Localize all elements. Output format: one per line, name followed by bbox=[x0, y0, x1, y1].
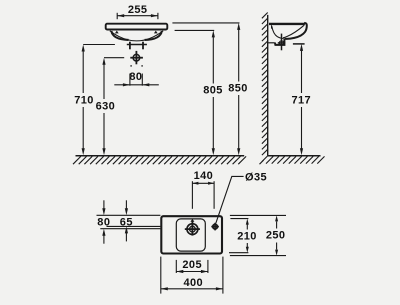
svg-text:Ø35: Ø35 bbox=[245, 172, 267, 184]
front view: 805 extension line from rim bottom bbox=[175, 29, 215, 31]
side view: floor line bbox=[268, 155, 321, 157]
plan view: Ø35 leader line bbox=[216, 176, 244, 223]
front view: 80 dimension (drain width) bbox=[114, 71, 159, 86]
side view: basin profile drain pouch thin ledge bbox=[268, 42, 275, 44]
front view: floor hatching bbox=[73, 156, 246, 164]
front view: drain outlet horizontal line bbox=[127, 44, 147, 46]
side view: basin profile inner bowl curve bbox=[272, 26, 284, 38]
front view: 255 dimension line with end ticks bbox=[117, 13, 158, 19]
front view: water supply crosshair symbol bbox=[130, 51, 143, 67]
plan view: 210 dimension vertical line with arrows bbox=[236, 219, 257, 253]
plan view: bowl inner rounded rectangle bbox=[176, 219, 205, 251]
plan view: 80 level line (drain centre) bbox=[100, 228, 160, 230]
plan view: right extension line top (250) bbox=[230, 214, 286, 216]
front view: drain outlet right bar bbox=[142, 42, 144, 50]
svg-text:630: 630 bbox=[96, 101, 116, 113]
plan view: right extension line bowl top (210) bbox=[230, 218, 248, 220]
front view: 630 dimension vertical line with arrows bbox=[95, 58, 116, 156]
plan view: basin outer rectangle bbox=[161, 216, 222, 253]
side view: 717 extension line bbox=[293, 43, 305, 45]
plan view: tap hole symbol bbox=[211, 223, 219, 231]
front view: 630 extension line (supply height) bbox=[104, 57, 124, 59]
front view: overflow tick right bbox=[154, 31, 158, 34]
front view: bowl inner thick curve left bbox=[111, 31, 128, 40]
front view: basin rim rectangle bbox=[106, 24, 168, 30]
front view: bowl inner thick curve right bbox=[145, 31, 162, 40]
side view: wall line bbox=[267, 15, 269, 156]
side view: basin profile top rim bbox=[269, 23, 305, 25]
svg-text:65: 65 bbox=[120, 216, 133, 228]
svg-text:805: 805 bbox=[203, 85, 223, 97]
side view: basin profile drain pouch bbox=[275, 39, 285, 45]
plan view: 65 level line (tap centre) bbox=[107, 225, 161, 227]
side view: supply cross symbol bbox=[278, 34, 285, 51]
front view: floor line bbox=[76, 155, 245, 157]
front view: 710 extension line (drain height) bbox=[83, 44, 115, 46]
front view: 805 dimension vertical line with arrows bbox=[202, 30, 223, 155]
plan view: 250 dimension vertical line with arrows bbox=[265, 215, 286, 255]
front view: 710 dimension vertical line with arrows bbox=[73, 45, 94, 156]
front view: drain outlet left bar bbox=[129, 42, 131, 50]
svg-text:140: 140 bbox=[194, 170, 214, 182]
svg-text:80: 80 bbox=[97, 216, 110, 228]
side view: basin profile inner front diagonal bbox=[283, 25, 304, 38]
svg-text:400: 400 bbox=[184, 277, 204, 289]
side view: 717 dimension vertical line with arrows bbox=[291, 44, 312, 155]
svg-text:717: 717 bbox=[292, 94, 312, 106]
plan view: 400 dimension with extension lines bbox=[161, 257, 223, 294]
front view: bowl outer thin curve bbox=[110, 31, 163, 41]
plan view: 205 dimension with ticks bbox=[176, 259, 208, 273]
svg-text:205: 205 bbox=[182, 259, 202, 271]
front view: 850 dimension vertical line with arrows bbox=[227, 23, 248, 155]
svg-text:250: 250 bbox=[266, 230, 286, 242]
plan view: 65 dimension arrows and text bbox=[120, 200, 133, 241]
front view: 850 extension line from rim top bbox=[172, 22, 239, 24]
plan view: 140 dimension line and extension lines bbox=[192, 181, 214, 209]
svg-text:710: 710 bbox=[74, 95, 94, 107]
side view: wall hatching bbox=[260, 13, 268, 165]
front view: overflow tick left bbox=[115, 31, 119, 34]
svg-text:850: 850 bbox=[228, 83, 248, 95]
svg-text:255: 255 bbox=[128, 4, 148, 16]
svg-text:210: 210 bbox=[237, 231, 257, 243]
side view: basin profile back edge tick bbox=[271, 25, 273, 28]
plan view: right extension line bowl bottom (210) bbox=[229, 252, 248, 254]
plan view: 80 dimension arrows and text bbox=[97, 200, 110, 243]
plan view: right extension line bottom (250) bbox=[230, 255, 286, 257]
plan view: top extension line to the left bbox=[97, 214, 161, 216]
side view: basin profile front edge and underside curve bbox=[284, 23, 306, 39]
svg-text:80: 80 bbox=[129, 71, 142, 83]
plan view: drain target symbol bbox=[185, 219, 200, 236]
side view: floor hatching bbox=[266, 156, 325, 163]
